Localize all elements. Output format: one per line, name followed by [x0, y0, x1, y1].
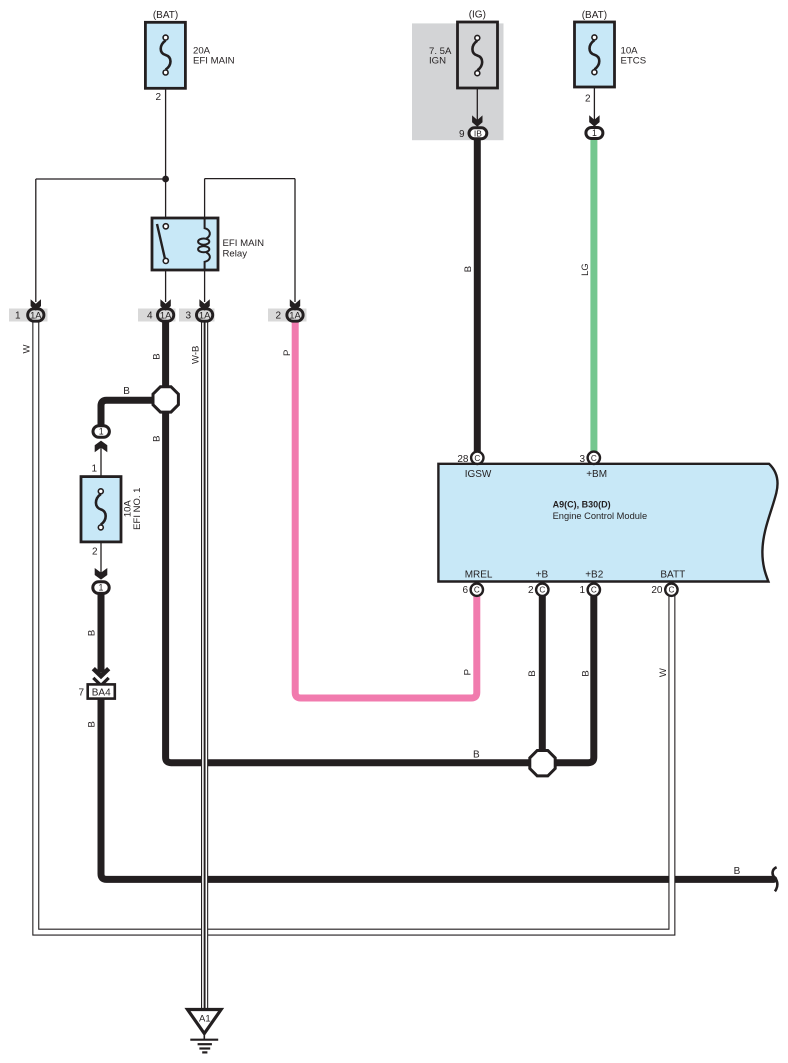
- wire W: connector 1 down, across bottom, up to ECM BATT pin 20: [36, 320, 672, 932]
- svg-text:C: C: [539, 586, 545, 595]
- ECM pin 20 BATT: [665, 584, 677, 596]
- wire break symbol: [773, 867, 778, 891]
- wire: ETCS fuse lead to connector 1: [593, 72, 595, 122]
- svg-text:1: 1: [99, 583, 104, 593]
- svg-text:EFI MAIN: EFI MAIN: [223, 238, 265, 249]
- svg-text:B: B: [86, 630, 97, 636]
- ECM pin 28 IGSW: [471, 452, 483, 464]
- wire B: EFI NO.1 connector down through BA4: [98, 593, 105, 673]
- svg-text:(IG): (IG): [469, 10, 486, 21]
- connector 1A gray strip 3: [179, 309, 215, 322]
- svg-text:3: 3: [185, 311, 191, 322]
- wire LG: ETCS connector down to ECM +BM pin 3: [590, 139, 597, 453]
- svg-text:(BAT): (BAT): [153, 10, 178, 21]
- relay switch contact: [157, 224, 165, 258]
- svg-text:+BM: +BM: [586, 469, 607, 480]
- svg-text:MREL: MREL: [465, 570, 493, 581]
- svg-text:P: P: [282, 350, 293, 356]
- svg-text:2: 2: [275, 311, 281, 322]
- svg-text:(BAT): (BAT): [582, 10, 607, 21]
- svg-text:ETCS: ETCS: [621, 56, 647, 67]
- wire: down to connector 1: [35, 179, 37, 302]
- svg-text:1: 1: [579, 585, 585, 596]
- svg-text:+B: +B: [536, 570, 549, 581]
- svg-text:1A: 1A: [30, 309, 42, 320]
- IG fuse shaded background: [412, 23, 504, 140]
- svg-text:B: B: [463, 266, 474, 272]
- connector 1 above EFI NO.1 fuse: [93, 426, 109, 438]
- svg-text:EFI NO. 1: EFI NO. 1: [132, 488, 143, 530]
- wire: EFI NO.1 fuse bottom lead: [100, 527, 102, 576]
- wire: EFI NO.1 fuse top lead: [100, 446, 102, 491]
- svg-text:B: B: [152, 436, 163, 442]
- svg-text:2: 2: [92, 547, 98, 558]
- svg-text:1: 1: [99, 427, 104, 437]
- wire: 20A fuse lead down to junction: [165, 73, 167, 219]
- wire B: ECM +B2 pin 1 down, corner to octagon: [553, 595, 594, 763]
- svg-text:B: B: [473, 750, 480, 761]
- svg-text:Engine Control Module: Engine Control Module: [553, 511, 648, 521]
- arrow up into connector: [95, 441, 108, 453]
- svg-text:A1: A1: [199, 1014, 211, 1025]
- svg-text:A9(C), B30(D): A9(C), B30(D): [553, 500, 611, 510]
- ECM A9(C),B30(D) Engine Control Module box: [438, 464, 777, 582]
- wire B: connector 4 down to octagon junction: [162, 320, 169, 399]
- wire B: octagon down, corner, to +B2 octagon: [166, 411, 535, 763]
- svg-text:B: B: [527, 670, 538, 676]
- ECM pin 2 +B: [536, 584, 548, 596]
- wire: bridge from connector 2 drop to relay coil drop: [205, 178, 295, 180]
- svg-text:6: 6: [462, 585, 468, 596]
- fuse 10A EFI NO.1: [81, 477, 121, 542]
- wire W-B: connector 3 down to ground A1: [201, 320, 208, 1008]
- wire: relay coil feed: [204, 179, 206, 218]
- arrow into lower connector 1: [95, 568, 108, 580]
- svg-text:1: 1: [592, 128, 597, 138]
- svg-text:2: 2: [528, 585, 534, 596]
- junction dot: [162, 176, 169, 183]
- relay coil: [205, 218, 210, 239]
- wire B: IB down to ECM IGSW pin 28: [474, 139, 481, 453]
- svg-text:B: B: [581, 670, 592, 676]
- svg-text:+B2: +B2: [585, 570, 604, 581]
- svg-text:IB: IB: [474, 128, 482, 138]
- svg-text:2: 2: [585, 94, 591, 105]
- arrow into ETCS connector: [589, 115, 599, 126]
- arrow into connector 4: [160, 299, 170, 310]
- svg-text:2: 2: [155, 92, 161, 103]
- svg-text:C: C: [591, 454, 597, 463]
- svg-text:4: 4: [147, 311, 153, 322]
- ground A1: [188, 1010, 222, 1034]
- junction octagon J2: [530, 751, 555, 776]
- wire: relay coil out to connector 3: [204, 270, 206, 302]
- arrow into connector 2: [290, 299, 300, 310]
- svg-text:IGSW: IGSW: [465, 469, 492, 480]
- fuse 7.5A IGN: [458, 22, 498, 88]
- svg-text:1A: 1A: [289, 309, 301, 320]
- arrow into connector 1: [31, 299, 41, 310]
- svg-text:B: B: [86, 721, 97, 727]
- connector 3 (1A): [196, 309, 212, 321]
- connector 1 below EFI NO.1 fuse: [93, 582, 109, 594]
- relay EFI MAIN: [152, 218, 218, 270]
- connector 1A gray strip 4: [138, 309, 176, 322]
- connector 1A gray strip 1: [9, 309, 48, 322]
- svg-text:B: B: [734, 866, 741, 877]
- svg-text:W: W: [22, 344, 33, 353]
- svg-text:3: 3: [579, 454, 585, 465]
- connector 1 (1A): [28, 309, 44, 321]
- wire B: octagon branch to EFI NO.1 connector: [101, 400, 155, 426]
- wire B: ECM +B pin 2 down to octagon: [539, 595, 546, 752]
- svg-text:EFI MAIN: EFI MAIN: [193, 56, 235, 67]
- wire: down to connector 2: [294, 179, 296, 302]
- svg-text:B: B: [152, 353, 163, 359]
- svg-text:C: C: [668, 586, 674, 595]
- junction octagon J1: [153, 387, 178, 412]
- wire: IGN fuse lead to IB: [476, 73, 478, 122]
- arrow into IB: [472, 115, 482, 126]
- wire: top horizontal from fuse junction to connector 1 drop: [36, 178, 166, 180]
- svg-text:28: 28: [457, 454, 469, 465]
- svg-text:1: 1: [15, 311, 21, 322]
- svg-text:20: 20: [651, 585, 663, 596]
- ECM pin 3 +BM: [588, 452, 600, 464]
- connector BA4 pin 7: [88, 684, 115, 698]
- ECM pin 6 MREL: [471, 584, 483, 596]
- wire: relay switch out to connector 4: [165, 270, 167, 302]
- connector 2 (1A): [287, 309, 303, 321]
- double chevron to BA4: [93, 669, 108, 677]
- connector 4 (1A): [157, 309, 173, 321]
- fuse 20A EFI MAIN: [145, 22, 185, 88]
- connector 1A gray strip 2: [268, 309, 307, 322]
- ECM pin 1 +B2: [588, 584, 600, 596]
- svg-text:9: 9: [459, 129, 465, 140]
- svg-text:C: C: [474, 586, 480, 595]
- wire P: connector 2 down, across, up to ECM MREL pin 6: [295, 320, 477, 698]
- svg-text:B: B: [123, 386, 130, 397]
- svg-text:W-B: W-B: [190, 346, 201, 364]
- svg-text:7: 7: [78, 687, 84, 698]
- fuse 10A ETCS: [575, 22, 615, 87]
- svg-text:1A: 1A: [160, 309, 172, 320]
- connector 1 (ETCS): [586, 128, 603, 139]
- svg-text:1A: 1A: [199, 309, 211, 320]
- arrow into connector 3: [199, 299, 209, 310]
- svg-text:P: P: [463, 669, 474, 675]
- svg-text:C: C: [591, 586, 597, 595]
- svg-text:BA4: BA4: [92, 688, 111, 699]
- svg-text:IGN: IGN: [429, 56, 446, 67]
- connector IB pin 9: [469, 128, 487, 139]
- svg-text:C: C: [474, 454, 480, 463]
- svg-text:Relay: Relay: [223, 249, 248, 260]
- svg-text:BATT: BATT: [660, 570, 685, 581]
- svg-text:W: W: [658, 668, 669, 677]
- svg-text:LG: LG: [580, 263, 591, 276]
- svg-text:1: 1: [91, 463, 97, 474]
